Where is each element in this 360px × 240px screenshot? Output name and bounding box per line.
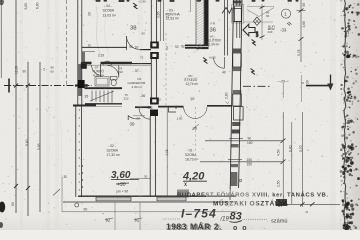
bottom exterior wall: [78, 195, 236, 197]
bathroom door leaf: [100, 64, 102, 77]
left sheet edge marks: [0, 0, 2, 78]
right scan margin band: [0, 0, 1, 1]
diamond shoe: [253, 17, 260, 25]
dotted rule: [162, 218, 165, 221]
top edge cut text fragments: [96, 0, 298, 2]
ragged scan edge: [344, 0, 346, 225]
hall stub wall y49: [140, 49, 151, 51]
window b1: [96, 197, 131, 201]
circled 1: [281, 9, 290, 18]
terrace edge line: [244, 21, 273, 23]
pier rect 3: [233, 94, 242, 106]
landing line: [73, 106, 122, 108]
elote r right wall x224-227: [224, 0, 226, 56]
dim line x262: [261, 4, 263, 40]
right bottom dim line y204: [276, 203, 340, 205]
wall hatch dots: [79, 109, 80, 110]
centerline right segment: [243, 85, 272, 87]
etkezo door swing: [214, 58, 225, 69]
entry T wall: [185, 45, 209, 49]
window line 150/150: [200, 161, 283, 163]
corridor axis dashed x166: [165, 33, 167, 106]
building left wall upper (double line): [77, 0, 79, 105]
tick cross on stamp: [278, 199, 280, 207]
dim verticals right side: [282, 112, 284, 204]
flue block solid: [150, 110, 158, 117]
window sill line left wall: [73, 104, 96, 106]
vertical dim x283 upper segment: [282, 83, 284, 98]
exterior right wall: [230, 0, 234, 200]
corridor wall x151 upper: [150, 0, 152, 42]
door frame block B: [150, 52, 159, 59]
stairs bottom edge: [85, 103, 122, 105]
main cross wall y105.5: [135, 106, 151, 108]
stairs treads: [91, 91, 93, 102]
interior line y178: [130, 178, 150, 180]
double door swing at y105: [184, 107, 196, 119]
light streaks: [330, 0, 336, 230]
dashed axis line x66: [66, 0, 68, 86]
step column lines: [236, 0, 238, 6]
door frame block C: [150, 98, 159, 105]
dim stub x115: [114, 202, 116, 230]
left edge blob: [0, 202, 5, 213]
window line 90/160: [205, 140, 283, 142]
handwritten 3,60: [111, 170, 139, 188]
room01/02 divider guide x167: [166, 108, 168, 196]
bath under-wall y88: [85, 87, 123, 89]
centerline section tick: [8, 79, 10, 93]
short dim line x190: [190, 0, 192, 12]
dimension line column x28: [27, 62, 29, 216]
scan wrinkles: [96, 6, 101, 56]
x301 lower continuation: [301, 75, 303, 102]
dim stub x140: [139, 202, 141, 230]
room38 door leaf: [126, 36, 128, 50]
pier rect top: [233, 9, 242, 22]
toilet: [111, 77, 118, 80]
garderob door swing: [139, 108, 150, 119]
zig mark b: [203, 58, 208, 64]
room02 door (39) leaf: [127, 116, 129, 121]
bathroom top wall y63: [82, 62, 92, 65]
room38 door swing: [127, 36, 140, 50]
small circle marker y180: [239, 179, 242, 182]
corridor wall x151 mid: [150, 59, 152, 98]
dimension line column x40: [39, 62, 41, 212]
window b2: [157, 197, 186, 201]
diagonal tick bottom left: [53, 189, 60, 196]
canopy zigzag: [247, 8, 274, 17]
entry steps rect: [235, 6, 242, 22]
tick marks on dim line: [26, 84, 30, 88]
crossed dims bottom: [106, 218, 140, 223]
outer terrace line: [62, 211, 237, 213]
check tick on wall: [226, 102, 230, 104]
pier rect 2: [233, 53, 242, 67]
room divider wall x150 lower: [149, 116, 151, 196]
zig mark a: [133, 3, 138, 9]
zig mark d: [252, 40, 257, 46]
left wall dark fill segment: [78, 64, 82, 96]
door frame block A: [150, 42, 159, 49]
centerline (dash-dot) y85.5 left: [4, 85, 92, 87]
centerline arrow into wall: [75, 84, 86, 86]
speckle noise: [112, 34, 113, 35]
wall junction blob: [78, 80, 85, 88]
door jamb marks: [169, 106, 177, 112]
entrance arrow: [243, 24, 255, 36]
facade dim line x301: [300, 0, 302, 62]
lightning marks: [133, 3, 256, 75]
bathroom door swing: [92, 65, 101, 76]
building left wall lower: [75, 106, 77, 197]
step direction zigzag: [222, 8, 232, 14]
corner footing circle: [75, 203, 79, 207]
door arc room37 from bath wall: [108, 66, 119, 78]
window dim ticks at x283: [281, 139, 286, 144]
bathtub: [95, 77, 109, 86]
room02 door swing: [128, 116, 140, 119]
washbasin: [103, 61, 111, 65]
room38 south wall y47: [82, 46, 127, 48]
rotated dimension texts: [11, 2, 310, 213]
konyha wall pair: [160, 0, 162, 41]
black entry wall: [204, 0, 208, 45]
hatched wall x199-204: [195, 0, 197, 49]
stairs slope line: [90, 91, 114, 101]
wall fill bands: [233, 1, 242, 4]
zig mark c: [251, 69, 256, 75]
section arrow L: [306, 85, 331, 87]
stamp blob over line2: [276, 199, 287, 206]
handwritten 4,20: [182, 171, 207, 187]
pier rect 4: [234, 107, 244, 121]
dimension line column far left x16: [15, 0, 17, 213]
entry wall base line: [196, 48, 209, 50]
